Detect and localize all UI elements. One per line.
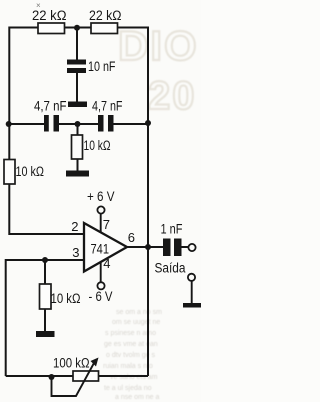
svg-text:6: 6	[128, 230, 135, 245]
resistor R5 10k	[40, 284, 52, 309]
wire pin3 node to R5	[44, 260, 46, 285]
svg-text:4,7 nF: 4,7 nF	[92, 99, 123, 114]
svg-text:2: 2	[71, 219, 78, 234]
svg-text:3: 3	[72, 245, 79, 260]
svg-text:10 kΩ: 10 kΩ	[84, 138, 111, 153]
svg-text:Saída: Saída	[155, 260, 186, 275]
terminal +6V	[97, 206, 104, 213]
wire output ground terminal to ground	[191, 281, 193, 304]
svg-text:22 kΩ: 22 kΩ	[89, 8, 122, 23]
op-amp U1 741	[84, 223, 127, 272]
node junction wiper/bottom wire	[49, 374, 55, 380]
potentiometer P1 100k body	[73, 371, 99, 381]
wire twin-T middle horizontal	[9, 123, 149, 125]
wire R5 to ground	[44, 308, 46, 332]
svg-text:a nse om ne a: a nse om ne a	[115, 394, 159, 401]
svg-text:7: 7	[103, 217, 110, 232]
watermark ghost letters top right	[118, 22, 199, 118]
wire junction to C1	[76, 28, 78, 63]
wire pin 4 to -6V terminal	[100, 262, 102, 283]
ground under R3	[66, 171, 89, 177]
capacitor C4 1nF	[163, 239, 182, 257]
wire left lower vertical (pin 3)	[6, 260, 84, 376]
wire bottom horizontal	[6, 375, 148, 377]
wire C1 to ground	[76, 71, 78, 102]
wire right feedback vertical	[147, 27, 149, 377]
wire pin 7 to +6V terminal	[100, 214, 102, 233]
node junction pin3/R5	[42, 257, 48, 263]
svg-text:1 nF: 1 nF	[161, 222, 183, 237]
svg-text:DIO: DIO	[118, 22, 199, 69]
resistor R3 10k	[72, 135, 83, 159]
wire C4 to output terminal	[180, 246, 188, 248]
svg-text:te a ul sjeda no: te a ul sjeda no	[104, 385, 152, 392]
node junction twin-T right	[145, 120, 151, 126]
wire top horizontal	[9, 27, 148, 29]
capacitor C2 4.7nF	[44, 115, 59, 132]
svg-text:20: 20	[148, 74, 197, 118]
ground under output terminal	[183, 303, 201, 308]
resistor R4 10k (left)	[4, 160, 15, 185]
svg-text:ruian mala s nto: ruian mala s nto	[103, 363, 153, 370]
svg-text:- 6 V: - 6 V	[89, 289, 113, 304]
svg-text:22 kΩ: 22 kΩ	[32, 8, 67, 23]
capacitor C3 4.7nF	[98, 115, 114, 132]
svg-text:10 kΩ: 10 kΩ	[51, 291, 81, 306]
terminal output ground	[188, 274, 195, 281]
ground under C1	[68, 102, 87, 108]
svg-text:se om a no sm: se om a no sm	[116, 309, 162, 316]
node junction left line / twin-T wire	[6, 121, 12, 127]
svg-text:4,7 nF: 4,7 nF	[34, 99, 67, 114]
wire node to R3	[77, 124, 79, 137]
svg-text:10 kΩ: 10 kΩ	[16, 164, 45, 179]
wire left vertical (to pin 2)	[9, 27, 83, 235]
node junction output/feedback	[145, 244, 151, 250]
capacitor C1 10nF	[67, 60, 86, 74]
svg-text:4: 4	[103, 256, 110, 271]
wire op-amp output	[127, 246, 164, 248]
resistor R1 22k	[38, 23, 65, 34]
node junction C2-C3	[75, 121, 81, 127]
watermark show-through text bottom right	[103, 309, 162, 401]
svg-text:+ 6 V: + 6 V	[87, 189, 115, 204]
wire R3 to ground	[77, 157, 79, 171]
svg-text:100 kΩ: 100 kΩ	[53, 356, 90, 371]
svg-text:10 nF: 10 nF	[88, 59, 116, 74]
svg-text:741: 741	[91, 241, 110, 257]
svg-text:ge es vme at ean: ge es vme at ean	[104, 341, 158, 348]
node junction R1-R2	[74, 25, 80, 31]
svg-text:om se uuget ne: om se uuget ne	[112, 319, 160, 326]
ground under R5	[36, 331, 55, 337]
terminal -6V	[97, 282, 104, 289]
potentiometer P1 wiper arrow	[52, 358, 99, 397]
resistor R2 22k	[91, 23, 118, 34]
terminal output Saída	[188, 244, 195, 251]
